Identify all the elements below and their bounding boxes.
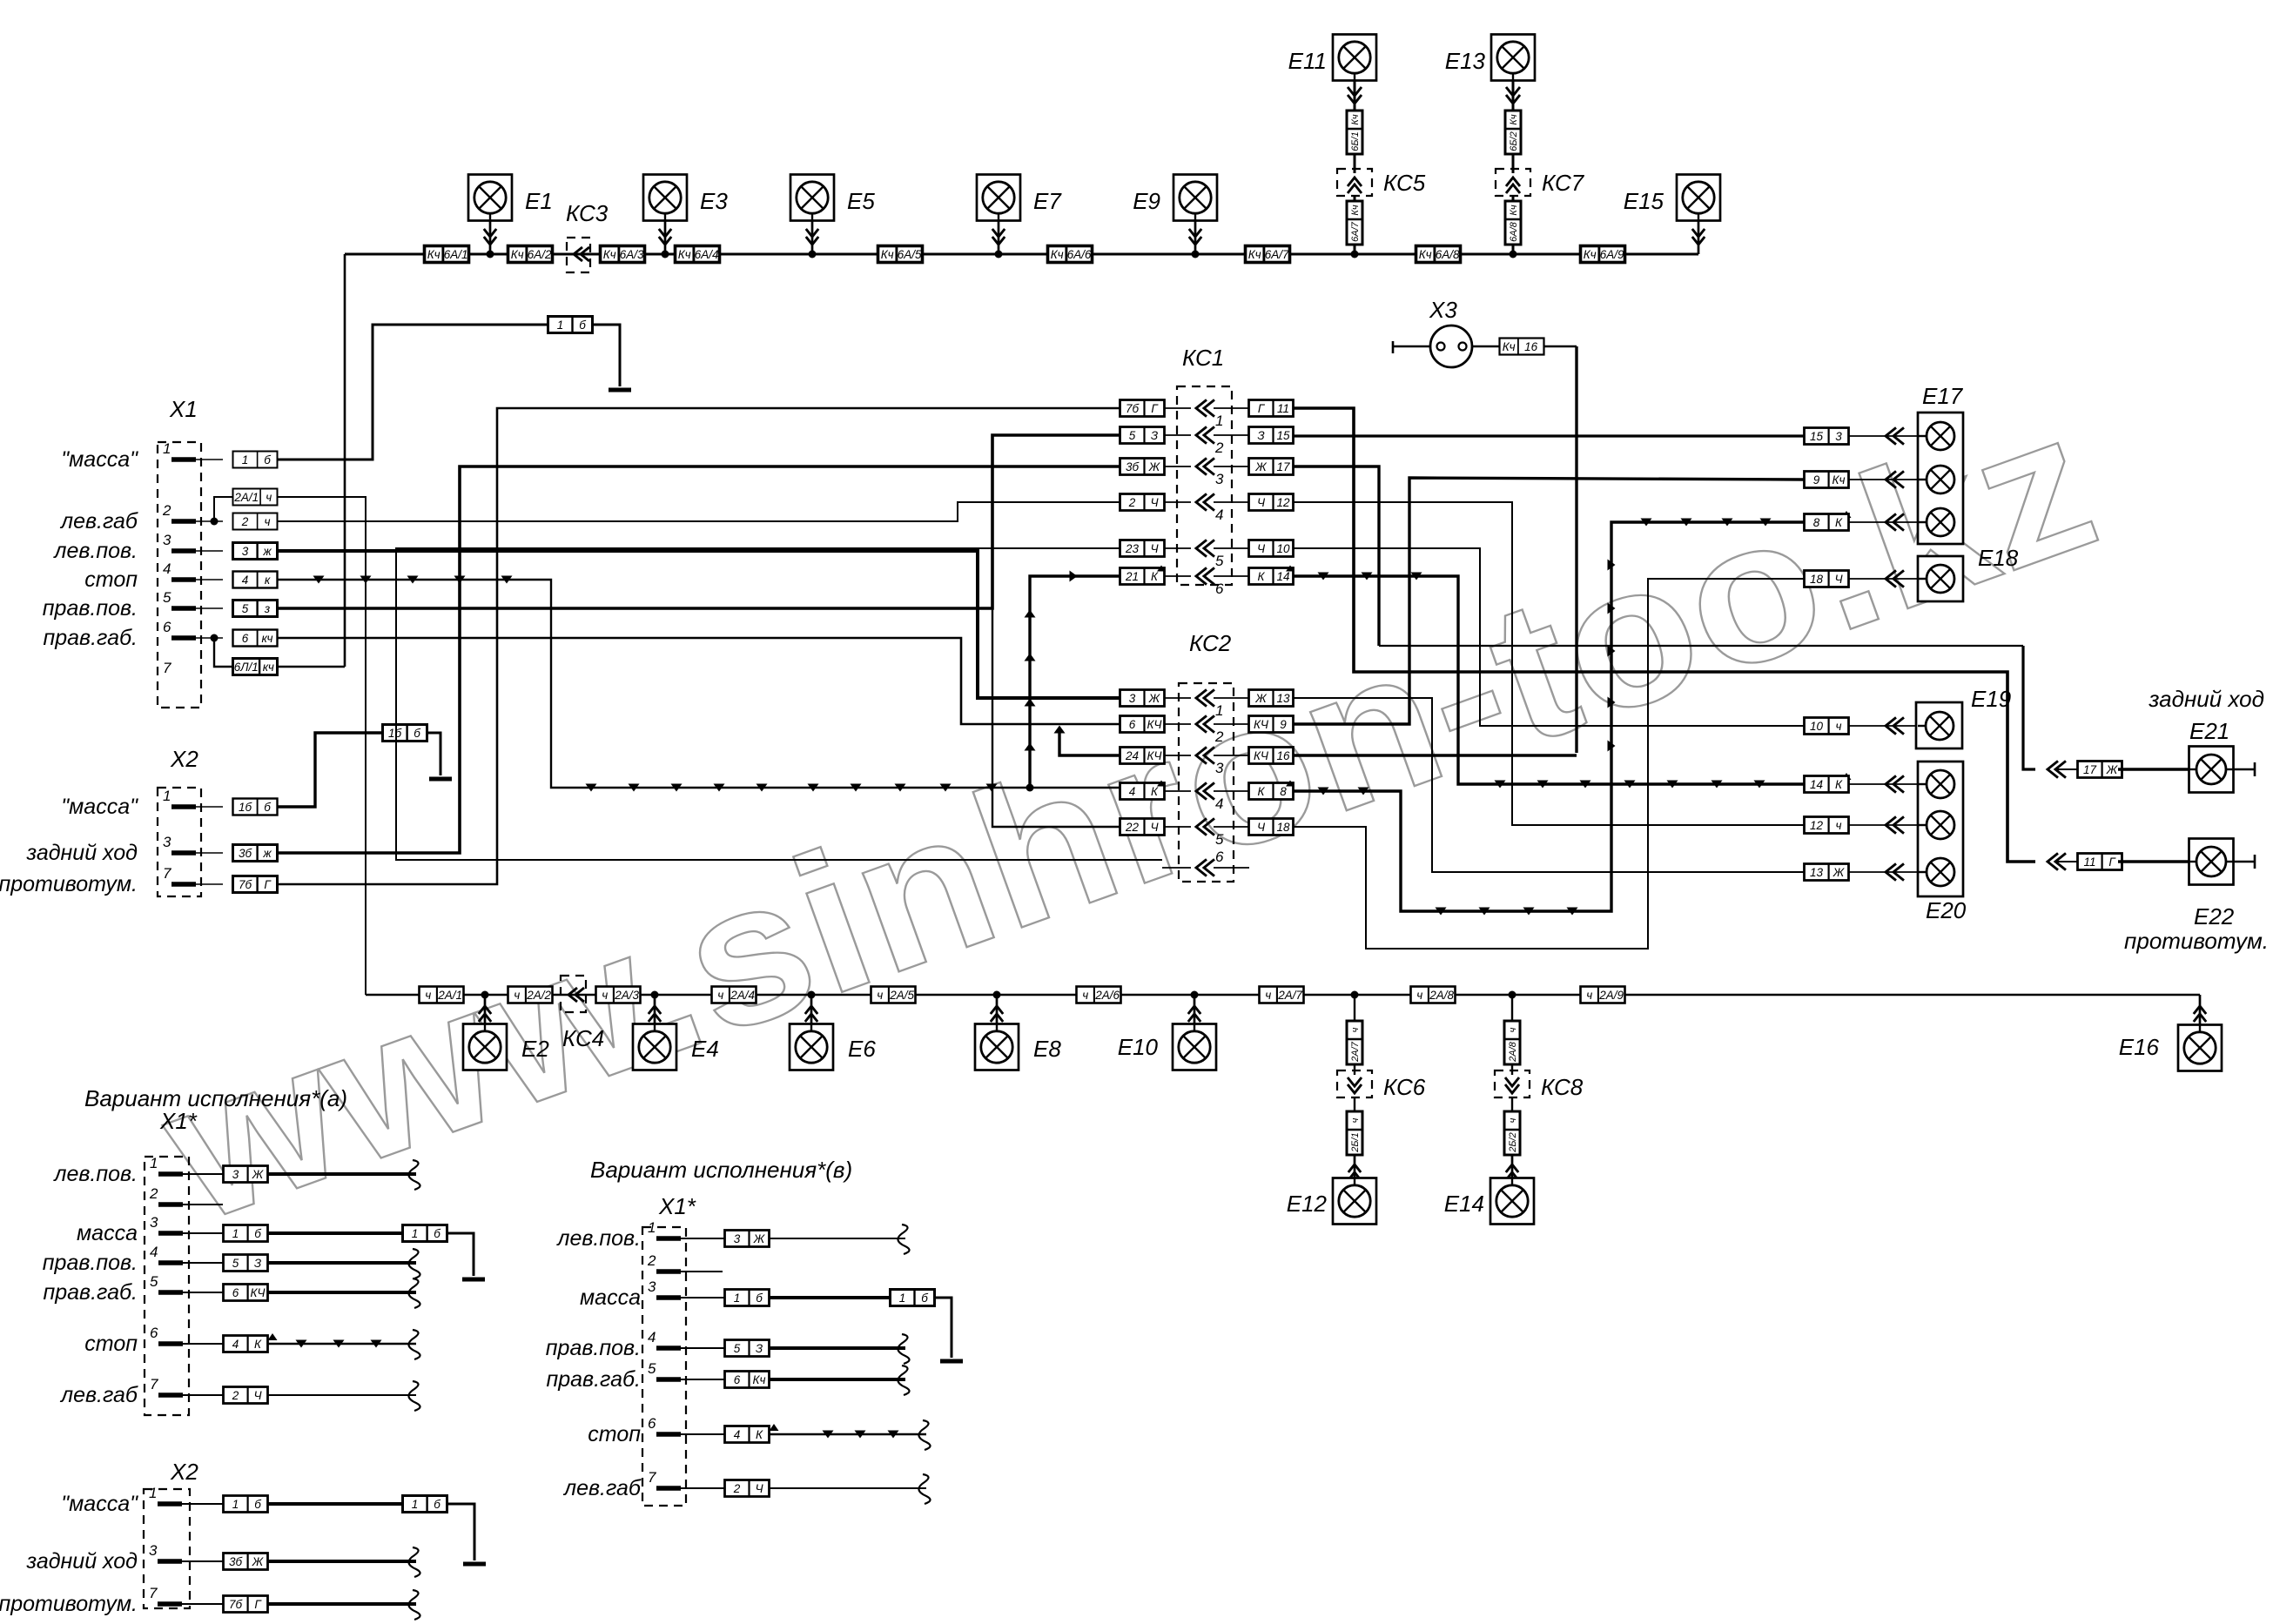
svg-text:"масса": "масса" xyxy=(61,447,138,472)
heading вариант исполнения (в) xyxy=(590,1157,852,1183)
svg-text:5: 5 xyxy=(648,1360,656,1377)
svg-text:3б: 3б xyxy=(1126,460,1140,473)
svg-text:3: 3 xyxy=(734,1232,741,1245)
svg-text:1: 1 xyxy=(149,1485,157,1501)
X2(а) pin 7 противотум. xyxy=(0,1585,420,1620)
wire X1 масса to ground link xyxy=(278,325,548,460)
svg-text:лев.пов.: лев.пов. xyxy=(52,539,138,563)
svg-text:Ж: Ж xyxy=(2106,763,2119,776)
svg-text:лев.пов.: лев.пов. xyxy=(555,1226,641,1251)
svg-text:5: 5 xyxy=(163,589,171,606)
svg-text:7: 7 xyxy=(149,1585,158,1601)
svg-text:15: 15 xyxy=(1810,430,1824,443)
svg-text:стоп: стоп xyxy=(84,1332,138,1356)
svg-text:14: 14 xyxy=(1276,570,1289,583)
X1*(а) pin 3 масса xyxy=(77,1214,485,1279)
svg-text:З: З xyxy=(1151,429,1159,442)
svg-text:2А/8: 2А/8 xyxy=(1429,989,1454,1002)
svg-text:противотум.: противотум. xyxy=(0,1592,138,1616)
svg-text:противотум.: противотум. xyxy=(2124,928,2269,954)
svg-text:17: 17 xyxy=(2083,763,2097,776)
svg-text:E11: E11 xyxy=(1288,48,1327,74)
svg-text:К: К xyxy=(1151,570,1159,583)
wire label Кч 6А/1 xyxy=(425,246,469,263)
svg-text:6Б/2: 6Б/2 xyxy=(1509,131,1519,151)
svg-text:5: 5 xyxy=(242,602,249,615)
svg-text:4: 4 xyxy=(163,560,171,577)
svg-text:3: 3 xyxy=(163,532,171,548)
svg-text:2А/2: 2А/2 xyxy=(526,989,551,1002)
wire label 7б Г xyxy=(233,876,278,893)
svg-text:6А/5: 6А/5 xyxy=(898,248,922,261)
wire label 1б б (ground 2) xyxy=(383,725,427,742)
svg-text:17: 17 xyxy=(1276,460,1290,473)
svg-text:КС5: КС5 xyxy=(1383,170,1426,196)
svg-text:2: 2 xyxy=(149,1185,158,1202)
svg-text:масса: масса xyxy=(77,1221,138,1245)
lamp E13 xyxy=(1445,35,1535,174)
svg-text:4: 4 xyxy=(1215,795,1223,812)
svg-text:1: 1 xyxy=(1215,702,1223,719)
X1*(а) pin 4 прав.пов. xyxy=(43,1244,420,1278)
wire 7б Г to KC1.1 xyxy=(278,408,1120,884)
wire 13 Ж to E20 xyxy=(1294,698,1805,872)
svg-text:ч: ч xyxy=(266,491,272,504)
svg-text:ч: ч xyxy=(514,989,520,1002)
lamp E16 xyxy=(2119,995,2222,1071)
svg-text:6: 6 xyxy=(734,1373,741,1386)
svg-text:3: 3 xyxy=(232,1168,239,1181)
wire label 9 Кч (E17) xyxy=(1805,471,1919,487)
lamp E4 xyxy=(633,991,719,1070)
svg-text:7б: 7б xyxy=(1126,402,1140,415)
X1*(в) pin 5 прав.габ. xyxy=(546,1360,909,1395)
wire 23 Ч xyxy=(396,548,1162,860)
svg-text:X3: X3 xyxy=(1429,297,1457,323)
wire label 2А/1 ч xyxy=(214,489,278,522)
wire label 17 Ж (E21) xyxy=(2048,761,2189,777)
lamp E1 xyxy=(468,175,553,258)
svg-text:кч: кч xyxy=(263,661,274,674)
wire 18 Ч to E18 xyxy=(1294,579,1805,949)
svg-text:E1: E1 xyxy=(525,188,553,214)
svg-text:E22: E22 xyxy=(2194,903,2235,929)
svg-text:22: 22 xyxy=(1125,821,1140,834)
wire label Кч 16 xyxy=(1472,339,1577,355)
X1*(а) pin 6 стоп xyxy=(84,1325,420,1359)
KC2 pin 5 xyxy=(1120,818,1294,848)
svg-text:X1*: X1* xyxy=(159,1108,198,1134)
svg-text:4: 4 xyxy=(734,1428,741,1441)
wire label 1б б (X2) xyxy=(233,799,278,815)
wire label ч 2А/8 xyxy=(1411,987,1456,1003)
KC1 pin 4 xyxy=(1120,493,1294,523)
wire label 1 б (X1 масса) xyxy=(233,452,278,468)
svg-text:18: 18 xyxy=(1810,573,1824,586)
svg-text:9: 9 xyxy=(1280,718,1287,731)
svg-text:6: 6 xyxy=(1215,580,1224,597)
svg-text:Кч: Кч xyxy=(678,248,691,261)
KC2 pin 2 xyxy=(1120,715,1294,745)
wire label 11 Г (E22) xyxy=(2048,853,2189,869)
wire label 5 з xyxy=(233,601,278,617)
svg-text:ж: ж xyxy=(262,545,272,558)
svg-text:ч: ч xyxy=(717,989,723,1002)
connector КС7 xyxy=(1496,169,1585,258)
svg-text:E3: E3 xyxy=(700,188,728,214)
svg-text:3: 3 xyxy=(242,545,249,558)
svg-text:10: 10 xyxy=(1276,542,1290,555)
svg-text:ч: ч xyxy=(1416,989,1422,1002)
svg-text:E6: E6 xyxy=(848,1036,876,1062)
svg-text:1: 1 xyxy=(1215,413,1223,429)
svg-text:1: 1 xyxy=(734,1292,741,1305)
X1 pin 7 xyxy=(163,660,171,676)
wire 16 КЧ stub xyxy=(1294,754,1577,756)
KC1 pin 2 xyxy=(1120,426,1294,456)
wire 2 ч to KC1.4 xyxy=(278,502,1120,521)
svg-text:ч: ч xyxy=(1508,1027,1518,1032)
X1 pin 3 лев.пов xyxy=(52,532,223,563)
X1 pin 1 масса xyxy=(61,440,223,472)
svg-text:прав.габ.: прав.габ. xyxy=(546,1367,641,1392)
svg-text:К: К xyxy=(254,1338,262,1351)
lamp E2 xyxy=(463,991,549,1070)
svg-text:Кч: Кч xyxy=(1584,248,1597,261)
wire label 8 К (E17) xyxy=(1805,513,1919,530)
svg-text:Ч: Ч xyxy=(1834,573,1843,586)
svg-text:3: 3 xyxy=(163,834,171,850)
wire to ground xyxy=(593,325,620,386)
wire 24 КЧ join xyxy=(1054,726,1120,756)
svg-text:1: 1 xyxy=(412,1498,419,1511)
X1*(в) pin 4 прав.пов. xyxy=(546,1329,910,1364)
svg-text:E18: E18 xyxy=(1978,545,2019,571)
svg-text:К: К xyxy=(756,1428,763,1441)
svg-text:прав.пов.: прав.пов. xyxy=(43,1251,138,1275)
svg-text:КС2: КС2 xyxy=(1189,630,1232,656)
connector X2 xyxy=(158,746,201,896)
svg-text:Кч: Кч xyxy=(511,248,524,261)
X1*(в) pin 6 стоп xyxy=(588,1415,930,1450)
svg-text:З: З xyxy=(1257,429,1265,442)
svg-text:2: 2 xyxy=(162,502,171,519)
lamp E17 xyxy=(1918,383,1964,544)
svg-text:Кч: Кч xyxy=(603,248,616,261)
connector КС5 xyxy=(1337,169,1426,258)
svg-text:2Б/2: 2Б/2 xyxy=(1508,1132,1518,1152)
wire label Кч 6А/3 xyxy=(601,246,645,263)
wire label 3 ж xyxy=(233,543,278,560)
wire top bus 6A xyxy=(345,253,1698,256)
svg-text:6А/6: 6А/6 xyxy=(1067,248,1092,261)
svg-text:6: 6 xyxy=(1129,718,1136,731)
svg-text:E5: E5 xyxy=(847,188,875,214)
svg-text:Ж: Ж xyxy=(1254,692,1268,705)
connector KC1 box xyxy=(1177,345,1232,585)
svg-text:Ж: Ж xyxy=(252,1168,265,1181)
svg-text:6А/4: 6А/4 xyxy=(695,248,719,261)
svg-text:б: б xyxy=(254,1227,261,1240)
wire label ч 2А/1 xyxy=(420,987,464,1003)
connector X1* (в) xyxy=(642,1193,696,1506)
svg-text:3: 3 xyxy=(1215,760,1224,776)
svg-text:8: 8 xyxy=(1813,516,1820,529)
X1*(а) pin 5 прав.габ. xyxy=(43,1273,420,1308)
svg-text:4: 4 xyxy=(648,1329,656,1346)
svg-text:X1: X1 xyxy=(169,396,198,422)
svg-text:10: 10 xyxy=(1810,720,1824,733)
svg-text:прав.габ.: прав.габ. xyxy=(43,626,138,650)
svg-text:Кч: Кч xyxy=(1833,473,1846,487)
svg-text:КЧ: КЧ xyxy=(1254,718,1269,731)
svg-text:4: 4 xyxy=(150,1244,158,1260)
svg-text:лев.пов.: лев.пов. xyxy=(52,1162,138,1186)
svg-text:2: 2 xyxy=(241,515,249,528)
svg-text:2: 2 xyxy=(647,1252,656,1269)
svg-text:1б: 1б xyxy=(239,801,252,814)
svg-text:E10: E10 xyxy=(1118,1034,1159,1060)
svg-text:3: 3 xyxy=(150,1214,158,1231)
ground (top) xyxy=(609,388,631,393)
svg-text:5: 5 xyxy=(1129,429,1136,442)
svg-text:Вариант исполнения*(а): Вариант исполнения*(а) xyxy=(84,1085,347,1111)
svg-text:б: б xyxy=(579,319,586,332)
wire label ч 2А/3 xyxy=(596,987,641,1003)
svg-text:11: 11 xyxy=(1277,402,1289,415)
svg-text:E13: E13 xyxy=(1445,48,1486,74)
svg-text:Ч: Ч xyxy=(1257,821,1266,834)
svg-text:КС3: КС3 xyxy=(566,200,609,226)
svg-text:задний ход: задний ход xyxy=(2148,686,2264,712)
svg-text:Кч: Кч xyxy=(1509,114,1519,124)
wire label 18 Ч (E18) xyxy=(1805,570,1919,587)
svg-text:1: 1 xyxy=(557,319,564,332)
svg-text:КЧ: КЧ xyxy=(250,1286,266,1299)
X1 pin 2 лев.габ xyxy=(59,502,223,534)
KC2 pin 4 xyxy=(1120,782,1294,812)
svg-text:прав.пов.: прав.пов. xyxy=(546,1336,641,1360)
svg-text:5: 5 xyxy=(232,1257,239,1270)
svg-text:Ж: Ж xyxy=(1833,866,1846,879)
svg-text:6А/8: 6А/8 xyxy=(1509,221,1519,242)
lamp E3 xyxy=(643,175,728,258)
lamp E19 xyxy=(1916,686,2011,748)
svg-text:6: 6 xyxy=(648,1415,656,1432)
svg-text:E15: E15 xyxy=(1624,188,1664,214)
svg-text:4: 4 xyxy=(1215,507,1223,523)
svg-text:К: К xyxy=(1151,785,1159,798)
svg-text:задний ход: задний ход xyxy=(25,841,138,865)
svg-text:Ч: Ч xyxy=(1150,496,1159,509)
KC1 pin 5 xyxy=(1120,540,1294,569)
heading вариант исполнения (а) xyxy=(84,1085,347,1111)
X1 pin 6 прав.габ xyxy=(43,619,223,650)
ground (X2) xyxy=(429,777,452,782)
svg-text:13: 13 xyxy=(1810,866,1824,879)
wire left drop from top bus xyxy=(344,254,346,667)
svg-text:1: 1 xyxy=(163,440,171,457)
watermark www.sinhron-too.kz xyxy=(138,369,2122,1265)
wire label 6Л/1 кч xyxy=(214,638,278,675)
svg-text:6А/2: 6А/2 xyxy=(528,248,552,261)
X2 pin 3 задний ход xyxy=(25,834,223,865)
svg-text:2А/1: 2А/1 xyxy=(233,491,259,504)
X2(а) pin 1 "масса" xyxy=(61,1485,486,1564)
svg-text:7б: 7б xyxy=(239,878,252,891)
svg-text:E21: E21 xyxy=(2189,718,2229,744)
wire 12 Ч to E20 xyxy=(1294,502,1805,825)
lamp E7 xyxy=(977,175,1062,258)
wire label Кч 6А/5 xyxy=(878,246,923,263)
svg-text:6: 6 xyxy=(242,632,249,645)
svg-text:E16: E16 xyxy=(2119,1034,2160,1060)
KC2 pin 3 xyxy=(1120,747,1294,776)
svg-text:кч: кч xyxy=(261,632,272,645)
svg-text:КЧ: КЧ xyxy=(1254,749,1269,762)
svg-text:З: З xyxy=(756,1342,763,1355)
svg-text:6А/1: 6А/1 xyxy=(444,248,468,261)
svg-text:масса: масса xyxy=(580,1285,641,1310)
svg-text:1: 1 xyxy=(899,1292,906,1305)
lamp E14 xyxy=(1444,1178,1534,1225)
lamp E21 xyxy=(2189,718,2256,793)
svg-text:14: 14 xyxy=(1810,778,1823,791)
svg-text:3: 3 xyxy=(1129,692,1136,705)
wire to ground 2 xyxy=(427,733,440,775)
svg-text:6: 6 xyxy=(1215,849,1224,865)
svg-text:6А/7: 6А/7 xyxy=(1265,248,1289,261)
wire 6Л/1 to top bus xyxy=(278,666,345,668)
wire label Кч 6А/4 xyxy=(676,246,720,263)
svg-text:5: 5 xyxy=(150,1273,158,1290)
wire label ч 2А/6 xyxy=(1077,987,1121,1003)
wire label 12 ч (E20) xyxy=(1805,816,1919,833)
svg-text:прав.габ.: прав.габ. xyxy=(43,1280,138,1305)
wire X2 масса link xyxy=(278,733,382,807)
wire label 14 К (E20) xyxy=(1805,775,1919,792)
svg-text:б: б xyxy=(264,453,271,466)
svg-text:прав.пов.: прав.пов. xyxy=(43,596,138,621)
svg-text:Кч: Кч xyxy=(427,248,440,261)
svg-text:б: б xyxy=(756,1292,763,1305)
X1*(а) pin 7 лев.габ xyxy=(59,1376,420,1411)
svg-text:8: 8 xyxy=(1280,785,1287,798)
wire label 13 Ж (E20) xyxy=(1805,863,1919,880)
wire 9 КЧ to E17 xyxy=(1294,478,1805,724)
svg-text:18: 18 xyxy=(1276,821,1290,834)
svg-text:К: К xyxy=(1258,570,1266,583)
svg-text:6: 6 xyxy=(163,619,171,635)
X1 pin 4 стоп xyxy=(84,560,223,592)
svg-text:б: б xyxy=(434,1227,440,1240)
wire label ч 2А/4 xyxy=(712,987,757,1003)
svg-text:E19: E19 xyxy=(1971,686,2011,712)
wire label 2 ч xyxy=(233,513,278,530)
svg-text:Ч: Ч xyxy=(1257,496,1266,509)
svg-text:К: К xyxy=(1835,778,1843,791)
svg-text:б: б xyxy=(434,1498,440,1511)
svg-text:б: б xyxy=(254,1498,261,1511)
connector КС6 xyxy=(1337,991,1426,1181)
lamp E15 xyxy=(1624,175,1720,255)
connector X3 xyxy=(1393,297,1472,367)
lamp E5 xyxy=(790,175,875,258)
svg-text:ч: ч xyxy=(1265,989,1271,1002)
svg-text:5: 5 xyxy=(1215,553,1224,569)
svg-text:Ж: Ж xyxy=(753,1232,766,1245)
svg-text:КС8: КС8 xyxy=(1541,1074,1584,1100)
wire 3б ж to KC1.3 xyxy=(278,466,1120,853)
svg-text:E9: E9 xyxy=(1133,188,1160,214)
wire label Кч 6А/2 xyxy=(508,246,553,263)
svg-text:9: 9 xyxy=(1813,473,1820,487)
wire label Кч 6А/9 xyxy=(1581,246,1625,263)
svg-text:12: 12 xyxy=(1276,496,1290,509)
svg-text:Кч: Кч xyxy=(881,248,894,261)
svg-text:E8: E8 xyxy=(1033,1036,1061,1062)
svg-text:стоп: стоп xyxy=(588,1422,641,1446)
svg-text:X2: X2 xyxy=(170,1459,198,1485)
svg-text:2Б/1: 2Б/1 xyxy=(1350,1132,1361,1152)
wire label Кч 6А/6 xyxy=(1048,246,1093,263)
svg-text:Вариант исполнения*(в): Вариант исполнения*(в) xyxy=(590,1157,852,1183)
svg-text:ж: ж xyxy=(262,847,272,860)
svg-text:5: 5 xyxy=(734,1342,741,1355)
wire 15 З to E17 xyxy=(1294,434,1805,437)
svg-text:6Б/1: 6Б/1 xyxy=(1350,131,1361,151)
KC1 pin 3 xyxy=(1120,458,1294,487)
svg-text:3: 3 xyxy=(1835,430,1842,443)
svg-text:7: 7 xyxy=(163,865,171,882)
svg-text:1: 1 xyxy=(150,1155,158,1171)
label задний ход xyxy=(2148,686,2264,712)
svg-text:2: 2 xyxy=(1214,440,1224,456)
X1 pin 5 прав.пов xyxy=(43,589,223,621)
svg-text:5: 5 xyxy=(1215,831,1224,848)
connector KC2 box xyxy=(1179,630,1234,882)
lamp E8 xyxy=(975,991,1061,1070)
X1*(а) pin 2 xyxy=(149,1185,223,1205)
X1*(в) pin 1 лев.пов. xyxy=(555,1219,909,1254)
svg-text:задний ход: задний ход xyxy=(25,1549,138,1574)
wire label ч 2А/2 xyxy=(508,987,553,1003)
svg-text:3б: 3б xyxy=(229,1555,243,1568)
lamp E10 xyxy=(1118,991,1216,1070)
svg-text:Кч: Кч xyxy=(1350,205,1361,215)
svg-text:ч: ч xyxy=(265,515,271,528)
connector X1 xyxy=(158,396,201,708)
wire 22 branch xyxy=(992,608,1120,827)
X1*(а) pin 1 лев.пов. xyxy=(52,1155,420,1190)
svg-text:Ч: Ч xyxy=(1257,542,1266,555)
lamp E11 xyxy=(1288,35,1376,174)
svg-text:Ж: Ж xyxy=(252,1555,265,1568)
svg-text:Кч: Кч xyxy=(1350,114,1361,124)
X2 pin 7 противотум xyxy=(0,865,223,896)
wire branch to KC1.6 xyxy=(1025,571,1120,789)
wire bottom bus 2A xyxy=(366,994,2200,997)
svg-text:К: К xyxy=(1835,516,1843,529)
svg-text:3: 3 xyxy=(149,1542,158,1559)
wire label 4 к xyxy=(233,572,278,588)
svg-text:Ч: Ч xyxy=(755,1482,763,1495)
svg-text:16: 16 xyxy=(1276,749,1290,762)
svg-text:6А/3: 6А/3 xyxy=(620,248,644,261)
svg-text:противотум.: противотум. xyxy=(0,872,138,896)
svg-text:ч: ч xyxy=(1350,1117,1361,1123)
svg-text:23: 23 xyxy=(1125,542,1140,555)
